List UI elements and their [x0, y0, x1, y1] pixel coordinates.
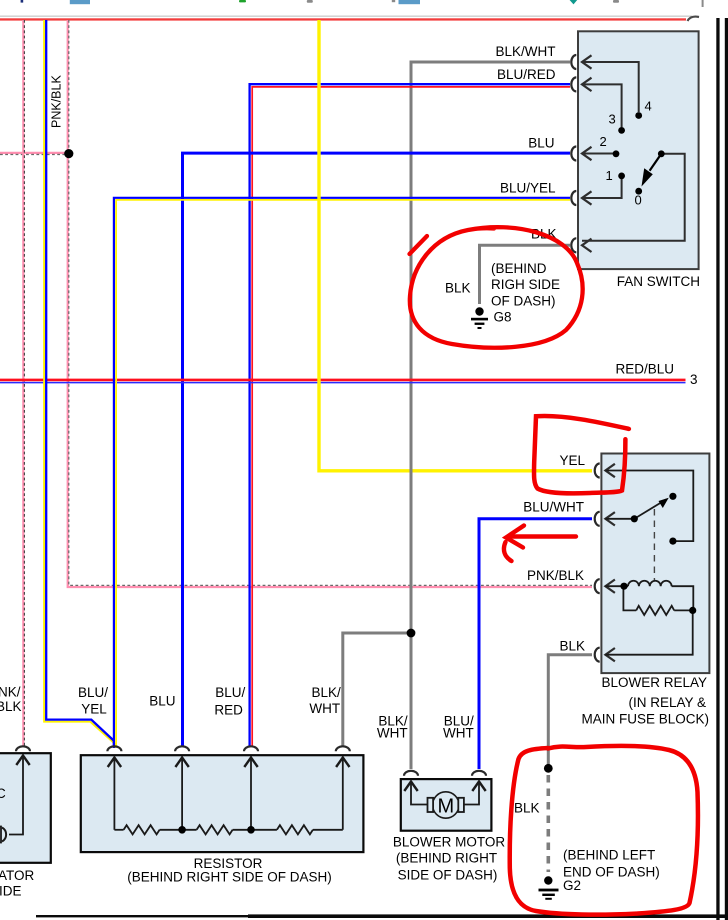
- relay pin arrows: [605, 464, 615, 662]
- wire BLK fan switch to ground G8: [480, 245, 571, 304]
- fan switch internal wiring: [582, 62, 685, 241]
- resistor elements (zigzags on bus): [114, 825, 342, 834]
- wire BLU/YEL from fan switch: [114, 198, 570, 746]
- svg-text:WHT: WHT: [443, 726, 474, 741]
- red circle around G8: [410, 227, 583, 348]
- ground G2: [539, 876, 559, 900]
- svg-text:WHT: WHT: [309, 701, 340, 716]
- blower motor box: [401, 779, 492, 831]
- resistor pin arrows: [108, 758, 350, 768]
- wire BLU/WHT relay to motor: [479, 519, 592, 769]
- svg-text:BLK/WHT: BLK/WHT: [495, 44, 555, 59]
- svg-text:BLU/: BLU/: [215, 685, 245, 700]
- wire PNK/BLK vertical to blower relay: [68, 20, 592, 587]
- svg-text:(BEHIND LEFT: (BEHIND LEFT: [563, 848, 655, 863]
- wire PNK/BLK horizontal feed into node: [0, 153, 67, 155]
- svg-text:MAIN FUSE BLOCK): MAIN FUSE BLOCK): [581, 712, 709, 727]
- red circle around G2: [510, 746, 698, 915]
- svg-text:(BEHIND: (BEHIND: [491, 261, 547, 276]
- fan switch position numbers: [600, 99, 652, 208]
- svg-text:G8: G8: [494, 310, 512, 325]
- svg-text:M: M: [437, 796, 454, 818]
- svg-text:BLK: BLK: [445, 281, 471, 296]
- illumination pin arrow: [16, 756, 29, 766]
- relay coil: [605, 581, 693, 611]
- fan switch box: [578, 31, 699, 269]
- label RESISTOR: [127, 856, 332, 885]
- red arrow annotation: [504, 526, 576, 562]
- svg-text:BLOWER RELAY: BLOWER RELAY: [601, 675, 707, 690]
- svg-text:C: C: [0, 786, 6, 801]
- svg-text:IDE: IDE: [0, 884, 22, 899]
- svg-text:3: 3: [690, 372, 698, 387]
- relay wiper arrow: [634, 498, 668, 519]
- illumination unit box (cut off at left): [0, 753, 51, 863]
- svg-text:RIGH SIDE: RIGH SIDE: [491, 277, 560, 292]
- label NK/ BLK fragment: [0, 685, 22, 715]
- svg-text:FAN SWITCH: FAN SWITCH: [617, 274, 700, 289]
- wire YEL/BLU pair left (jogs to resistor pin 1): [44, 20, 116, 748]
- gray curve fragment top right: [688, 17, 700, 21]
- fan switch pins (connector arcs): [571, 55, 576, 252]
- relay wire labels: [523, 453, 585, 654]
- svg-text:BLK: BLK: [559, 639, 585, 654]
- svg-text:0: 0: [635, 193, 642, 208]
- bottom black line: [36, 915, 728, 917]
- resistor wire labels: [78, 685, 341, 718]
- relay coil node dots: [620, 583, 696, 614]
- fan switch pin arrows: [582, 55, 592, 252]
- svg-text:BLK: BLK: [0, 699, 22, 714]
- svg-text:BLOWER MOTOR: BLOWER MOTOR: [393, 835, 506, 850]
- resistor box: [81, 755, 364, 852]
- svg-text:BLU/WHT: BLU/WHT: [523, 500, 584, 515]
- svg-text:BLU: BLU: [149, 694, 175, 709]
- svg-text:G2: G2: [563, 878, 581, 893]
- wire BLK/WHT from fan switch: [343, 62, 570, 769]
- svg-text:4: 4: [645, 99, 652, 114]
- svg-text:PNK/BLK: PNK/BLK: [527, 568, 584, 583]
- red page top line: [0, 18, 686, 20]
- fan switch contacts: [613, 112, 665, 195]
- wire BLU: [183, 153, 571, 746]
- wire BLK/WHT over YEL crossing patch: [410, 465, 413, 477]
- motor wire labels: [377, 714, 474, 741]
- svg-text:(BEHIND RIGHT SIDE OF DASH): (BEHIND RIGHT SIDE OF DASH): [127, 870, 332, 885]
- motor internal wiring: [411, 782, 479, 805]
- fan switch wiper arrow: [642, 154, 662, 187]
- red box around YEL relay pin: [534, 416, 629, 493]
- svg-text:BLU: BLU: [528, 136, 554, 151]
- wire PNK/BLK far-left vertical: [23, 20, 24, 747]
- label BLOWER MOTOR: [393, 835, 506, 883]
- resistor internal verticals: [114, 758, 342, 830]
- illumination lamp symbol: [2, 828, 6, 842]
- wire BLU/RED: [250, 84, 570, 746]
- node junction dot pnk/blk: [64, 149, 73, 158]
- svg-text:BLK/: BLK/: [311, 685, 341, 700]
- svg-text:3: 3: [609, 112, 616, 127]
- wire YEL to relay: [319, 20, 592, 471]
- relay switch wiring: [605, 471, 693, 542]
- svg-text:(BEHIND RIGHT: (BEHIND RIGHT: [396, 851, 497, 866]
- svg-text:END OF DASH): END OF DASH): [563, 865, 660, 880]
- svg-text:WHT: WHT: [377, 726, 408, 741]
- fan switch wire labels: [495, 44, 556, 242]
- label BLOWER RELAY: [581, 675, 709, 727]
- svg-text:NK/: NK/: [0, 685, 21, 700]
- note (BEHIND RIGH SIDE OF DASH): [491, 261, 560, 309]
- illumination pin arc: [16, 746, 30, 751]
- blower relay box: [601, 454, 709, 674]
- right black double bar: [716, 18, 719, 920]
- motor pin arrows: [404, 782, 485, 792]
- svg-text:YEL: YEL: [81, 702, 107, 717]
- relay contact dots: [631, 493, 677, 545]
- svg-text:BLU/YEL: BLU/YEL: [500, 181, 556, 196]
- motor pins (connector arcs): [404, 771, 486, 776]
- svg-text:OF DASH): OF DASH): [491, 294, 556, 309]
- relay dashed actuator line: [653, 509, 655, 581]
- svg-text:YEL: YEL: [559, 453, 585, 468]
- wire BLK dashed to G2: [546, 775, 550, 872]
- svg-text:RED: RED: [214, 703, 243, 718]
- svg-text:(IN RELAY &: (IN RELAY &: [628, 695, 706, 710]
- svg-text:2: 2: [600, 134, 607, 149]
- node dot blk G2: [544, 764, 553, 773]
- svg-text:BLK: BLK: [514, 801, 540, 816]
- svg-text:SIDE OF DASH): SIDE OF DASH): [398, 868, 498, 883]
- resistor bus junction dots: [178, 826, 255, 834]
- label ATOR / IDE fragments: [0, 868, 35, 899]
- svg-text:PNK/BLK: PNK/BLK: [50, 75, 64, 128]
- resistor pins (connector arcs): [107, 746, 349, 751]
- svg-text:BLU/: BLU/: [78, 685, 108, 700]
- svg-text:RED/BLU: RED/BLU: [615, 362, 674, 377]
- svg-text:ATOR: ATOR: [0, 868, 35, 883]
- relay resistor: [605, 586, 692, 655]
- svg-text:1: 1: [606, 168, 613, 183]
- illumination internal wiring: [9, 756, 23, 835]
- junction dot blk/wht: [407, 629, 416, 638]
- wire RED/BLU horizontal: [0, 380, 686, 383]
- motor symbol: [428, 792, 464, 818]
- relay pins (connector arcs): [595, 464, 600, 662]
- gray hairline under toolbar: [0, 16, 692, 17]
- note (BEHIND LEFT END OF DASH): [563, 848, 660, 880]
- wire BLK relay to ground G2: [548, 655, 592, 769]
- toolbar icon fragments (cropped): [21, 0, 704, 7]
- ground G8: [471, 307, 488, 329]
- svg-text:BLU/RED: BLU/RED: [497, 67, 556, 82]
